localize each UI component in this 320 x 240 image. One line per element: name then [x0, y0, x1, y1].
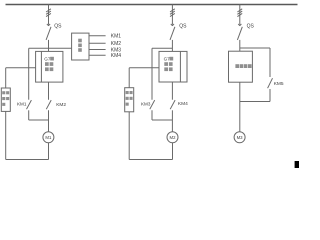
svg-text:M2: M2	[170, 135, 177, 140]
wire: motor 2 bottom return	[129, 112, 172, 160]
wire: inverter 2 left link to pressure transmitter	[129, 67, 159, 69]
svg-text:M3: M3	[237, 135, 244, 140]
svg-text:KM4: KM4	[111, 53, 122, 59]
contact KM5 blade	[268, 78, 273, 88]
wire: bypass return line	[240, 101, 270, 103]
wire: down to pressure transmitter 1	[5, 68, 7, 88]
svg-text:M1: M1	[45, 135, 52, 140]
wire: join line column 2	[152, 119, 172, 121]
relay output wire 2	[89, 42, 106, 44]
disconnector QS (column 2) blade	[170, 27, 175, 40]
wire: join line column 1	[29, 119, 49, 121]
wire: bus drop column 3	[239, 5, 241, 25]
three-phase marks column 1	[46, 9, 51, 17]
svg-text:QS: QS	[247, 23, 255, 29]
contact KM4 branch wire lower	[171, 110, 173, 120]
wire: inverter 1 left link to pressure transmitter	[6, 67, 36, 69]
contact KM4 branch wire upper	[171, 82, 173, 100]
motor M2 circle	[167, 132, 178, 143]
contact KM2 blade	[46, 100, 51, 109]
pressure transmitter BP1 box	[1, 88, 10, 111]
motor M1 circle	[43, 132, 54, 143]
disconnector QS (column 2) fixed contact tick	[171, 24, 174, 26]
inverter U1 box (G7 series) with left sidebar	[36, 51, 63, 82]
three-phase marks column 2	[170, 9, 175, 17]
wire: soft starter to motor 3	[239, 82, 241, 132]
contact KM5 bypass wire lower	[269, 89, 271, 102]
disconnector QS (column 3) fixed contact tick	[238, 24, 241, 26]
wire: QS to inverter box column 2	[171, 40, 173, 52]
pressure transmitter BP2 text blobs	[126, 91, 133, 106]
svg-text:G7: G7	[164, 57, 171, 62]
contact KM1 branch wire lower	[28, 110, 30, 120]
svg-text:KM1: KM1	[111, 34, 122, 40]
node A3: bypass tap line	[240, 47, 270, 49]
svg-text:KM1: KM1	[17, 102, 27, 107]
relay output wire 3	[89, 49, 106, 51]
contact KM2 branch wire lower	[48, 110, 50, 120]
contact KM3 branch wire upper	[151, 48, 153, 99]
expansion board vertical text blobs	[78, 39, 82, 52]
wire: to motor 1	[48, 120, 50, 132]
contact KM3 branch wire lower	[151, 110, 153, 120]
svg-text:QS: QS	[54, 23, 62, 29]
contact KM2 branch wire upper	[48, 82, 50, 100]
svg-text:KM5: KM5	[274, 81, 284, 87]
disconnector QS (column 1) fixed contact tick	[47, 24, 50, 26]
wire: down to pressure transmitter 2	[128, 68, 130, 88]
node A2: tap line above inverter 2	[152, 47, 172, 49]
soft starter text blobs (ruanqidongqi)	[235, 64, 251, 68]
wire: bus drop column 2	[171, 5, 173, 25]
svg-text:KM2: KM2	[111, 41, 122, 47]
power bus L1	[6, 4, 298, 6]
svg-text:QS: QS	[179, 23, 187, 29]
node A1: tap line above inverter 1	[29, 47, 72, 49]
expansion board module (kuozhanban)	[72, 33, 89, 60]
wire: QS to inverter box column 1	[48, 40, 50, 52]
relay output wire 1	[89, 35, 106, 37]
three-phase marks column 3	[237, 9, 242, 17]
svg-text:KM4: KM4	[178, 101, 188, 107]
relay output wire 4	[89, 54, 106, 56]
svg-text:G7: G7	[44, 57, 51, 62]
svg-text:KM3: KM3	[141, 102, 151, 107]
wire: QS to soft starter box	[239, 40, 241, 51]
contact KM4 blade	[170, 100, 175, 109]
wire: motor 1 bottom return	[6, 111, 49, 159]
corner block (scrollbar remnant)	[295, 161, 299, 168]
inverter U1 text G7 xilie bianpinqi	[44, 57, 54, 71]
inverter U2 box (G7 series) with right sidebar	[159, 51, 187, 82]
contact KM1 branch wire upper	[28, 48, 30, 99]
disconnector QS (column 1) blade	[46, 27, 51, 40]
soft starter U3 box	[229, 51, 253, 82]
pressure transmitter BP1 text blobs	[2, 91, 9, 106]
disconnector QS (column 3) blade	[237, 27, 242, 40]
wire: bus drop column 1	[48, 5, 50, 25]
pressure transmitter BP2 box	[125, 88, 134, 112]
contact KM5 bypass wire upper	[269, 48, 271, 77]
inverter U2 text G7 xilie bianpinqi	[164, 57, 174, 71]
wire: to motor 2	[171, 120, 173, 132]
svg-text:KM2: KM2	[56, 102, 66, 108]
contact KM3 blade	[150, 100, 155, 109]
motor M3 circle	[234, 132, 245, 143]
contact KM1 blade	[27, 100, 32, 109]
